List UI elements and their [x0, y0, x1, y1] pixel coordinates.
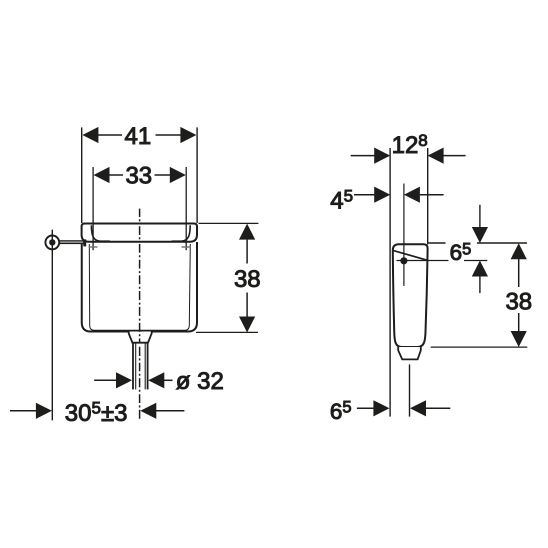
svg-text:38: 38 [234, 266, 261, 293]
svg-text:41: 41 [125, 123, 152, 150]
svg-text:ø 32: ø 32 [176, 368, 224, 395]
svg-text:33: 33 [125, 163, 152, 190]
svg-text:38: 38 [505, 289, 532, 316]
